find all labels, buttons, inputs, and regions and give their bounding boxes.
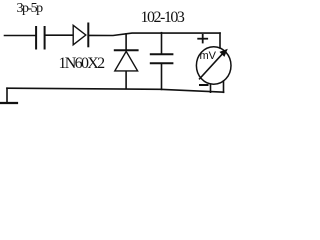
wire meter bottom lead <box>210 84 212 92</box>
capacitor C1 3p-5p <box>36 27 45 49</box>
wire D1 to meter top <box>89 33 220 35</box>
meter plus terminal <box>198 35 207 43</box>
label VD1 VD2 value 1N60X2 <box>59 55 104 73</box>
diode VD2 1N60 shunt <box>115 34 138 89</box>
diode VD1 1N60 <box>73 24 88 47</box>
meter minus terminal <box>200 84 208 86</box>
wire meter top lead <box>219 33 221 48</box>
ground <box>0 102 17 104</box>
label C1 value 3p-5p <box>17 1 42 17</box>
wire ground drop <box>6 88 8 103</box>
label C2 value 102-103 <box>141 9 184 27</box>
wire bottom right corner up to meter <box>223 81 225 92</box>
label meter unit mV <box>200 50 217 62</box>
meter PV1 mV <box>196 47 231 85</box>
wire input lead left <box>5 35 36 37</box>
wire ground bus bottom <box>7 88 224 92</box>
capacitor C2 102-103 shunt <box>151 33 173 90</box>
wire C1 to D1 <box>46 34 73 36</box>
